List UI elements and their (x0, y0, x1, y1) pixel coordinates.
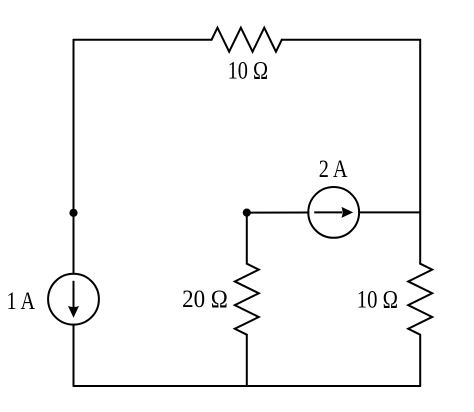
resistor R3 10ohm right zigzag (408, 264, 432, 335)
svg-text:10 Ω: 10 Ω (357, 287, 398, 314)
svg-text:2 A: 2 A (319, 156, 348, 183)
wire top-left segment (74, 39, 212, 41)
svg-text:1 A: 1 A (7, 288, 36, 315)
node A junction dot left (69, 209, 77, 217)
wire middle vertical below 20ohm (246, 335, 248, 386)
resistor R1 10ohm top zigzag (212, 28, 282, 52)
wire middle horizontal right of 2A source (359, 211, 420, 213)
wire middle vertical above 20ohm (246, 213, 248, 264)
resistor R2 20ohm zigzag (235, 264, 259, 335)
svg-text:20 Ω: 20 Ω (182, 286, 228, 313)
current source I2 circle (308, 187, 359, 238)
wire bottom segment (74, 385, 421, 387)
wire right upper segment (419, 40, 421, 264)
current source I2 arrow right (314, 207, 353, 218)
wire left lower segment (73, 325, 75, 386)
wire left upper segment (73, 40, 75, 274)
current source I1 arrow down (68, 281, 79, 318)
wire top-right segment (282, 39, 420, 41)
node B junction dot middle (243, 209, 251, 217)
svg-text:10 Ω: 10 Ω (228, 57, 269, 84)
current source I1 circle (48, 274, 99, 325)
wire right lower segment (419, 335, 421, 386)
wire middle horizontal left of 2A source (247, 212, 308, 214)
